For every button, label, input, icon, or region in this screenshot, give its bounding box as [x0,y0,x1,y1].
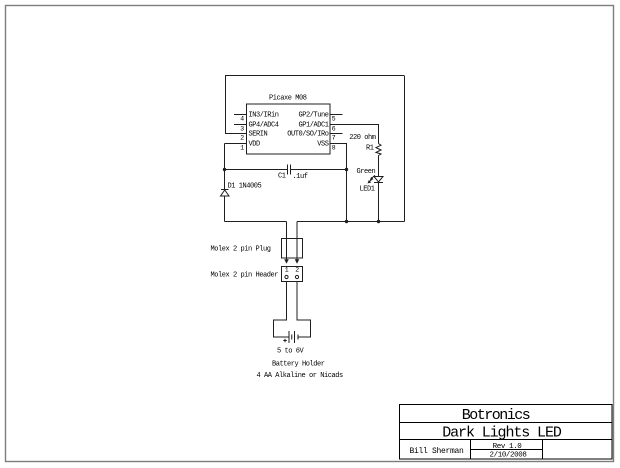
svg-text:Picaxe M08: Picaxe M08 [269,95,307,103]
svg-text:D1 1N4005: D1 1N4005 [228,182,262,190]
svg-text:220 ohm: 220 ohm [349,134,376,142]
svg-text:Green: Green [357,168,376,176]
svg-text:5 to 6V: 5 to 6V [277,348,305,356]
svg-text:GP4/ADC4: GP4/ADC4 [249,122,279,130]
svg-text:3: 3 [240,126,244,133]
svg-text:LED1: LED1 [360,186,375,194]
svg-text:6: 6 [332,126,336,133]
svg-text:Rev 1.0: Rev 1.0 [493,443,523,451]
svg-text:Dark Lights LED: Dark Lights LED [442,424,562,441]
svg-text:1: 1 [285,267,289,274]
svg-text:SERIN: SERIN [249,131,268,139]
svg-text:C1: C1 [278,173,286,181]
svg-text:4 AA Alkaline or Nicads: 4 AA Alkaline or Nicads [257,372,344,380]
svg-text:8: 8 [332,145,336,152]
svg-text:1: 1 [240,145,244,152]
svg-text:VSS: VSS [317,141,329,149]
svg-text:Molex 2 pin Plug: Molex 2 pin Plug [211,246,271,254]
svg-text:Bill Sherman: Bill Sherman [410,447,465,456]
svg-text:5: 5 [332,116,336,123]
svg-text:OUT0/SO/IRo: OUT0/SO/IRo [287,131,329,139]
svg-text:Battery Holder: Battery Holder [272,361,325,369]
svg-text:4: 4 [240,116,244,123]
svg-text:GP1/ADC1: GP1/ADC1 [298,122,328,130]
svg-text:2: 2 [240,135,244,142]
svg-text:VDD: VDD [249,141,261,149]
svg-text:2/10/2008: 2/10/2008 [490,452,527,460]
svg-text:IN3/IRin: IN3/IRin [249,112,279,120]
svg-text:Molex 2 pin Header: Molex 2 pin Header [211,271,279,279]
svg-text:R1: R1 [366,145,374,153]
svg-text:7: 7 [332,135,336,142]
svg-text:GP2/Tune: GP2/Tune [298,112,328,120]
svg-text:.1uf: .1uf [293,173,308,181]
svg-text:Botronics: Botronics [462,407,530,424]
svg-text:2: 2 [295,267,299,274]
